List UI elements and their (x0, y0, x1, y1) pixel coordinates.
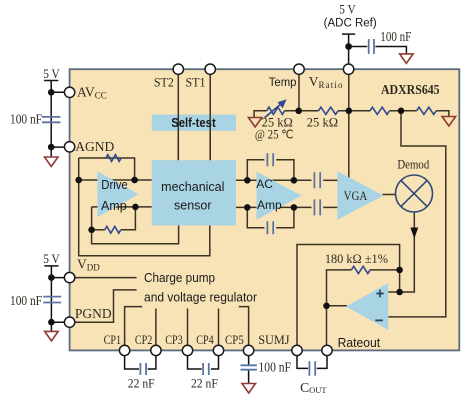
resistor R4 (417, 107, 436, 114)
resistor drive bottom (105, 226, 121, 233)
wire CP3 stub (187, 309, 189, 346)
wire CP1 bracket (125, 307, 143, 346)
resistor R3 (370, 107, 389, 114)
junction AC in top (244, 177, 251, 184)
svg-text:@ 25 ℃: @ 25 ℃ (255, 128, 294, 142)
capacitor AC top feedback (267, 153, 273, 166)
wire mixer output down (400, 212, 415, 292)
svg-text:ADXRS645: ADXRS645 (381, 83, 440, 98)
capacitor VGA in bottom (314, 199, 320, 215)
svg-text:and voltage regulator: and voltage regulator (144, 290, 257, 304)
supply bar 5V VDD (44, 265, 58, 267)
svg-text:Amp: Amp (257, 198, 282, 212)
wire drive loop top (79, 158, 135, 180)
svg-text:VGA: VGA (344, 189, 368, 203)
junction AC out bottom (291, 204, 298, 211)
wire drive left vertical (79, 158, 210, 256)
svg-text:5 V: 5 V (43, 251, 60, 266)
wire VDD charge pump (75, 277, 137, 279)
svg-text:CP2: CP2 (135, 333, 153, 347)
wire Temp vertical (298, 74, 300, 110)
pin ST2 (173, 64, 183, 74)
svg-text:22 nF: 22 nF (128, 376, 155, 391)
capacitor VGA in top (314, 172, 320, 188)
wire ST1 through self-test (209, 115, 211, 161)
wire drive loop bottom (92, 207, 179, 244)
junction pot-temp node (295, 108, 302, 115)
svg-text:PGND: PGND (75, 306, 112, 321)
pin AGND (64, 142, 74, 152)
wire CP5 to 100nF (248, 356, 250, 384)
wire pot to node (285, 110, 319, 112)
junction 180k right (396, 267, 403, 274)
svg-text:Demod: Demod (397, 157, 430, 171)
junction op-amp output (323, 303, 330, 310)
supply bar 5V AVcc (44, 80, 58, 82)
svg-text:ST1: ST1 (186, 76, 206, 90)
demod mixer (396, 175, 433, 212)
capacitor 22nF CP1-CP2 (140, 363, 146, 375)
pin Rateout (322, 345, 332, 355)
wire R4 to right ground (436, 111, 449, 117)
wire plus input (388, 291, 399, 293)
capacitor Cout (309, 361, 315, 376)
ground VDD rail (45, 331, 59, 341)
junction VDD rail bottom (48, 319, 55, 326)
svg-text:5 V: 5 V (43, 66, 60, 81)
svg-text:Rateout: Rateout (338, 336, 381, 350)
wire CP3 to 22nF (188, 356, 202, 369)
svg-text:100 nF: 100 nF (10, 293, 42, 308)
mixer output arrowhead (410, 228, 418, 239)
wire node to R3 (338, 110, 370, 112)
wire CP1 to 22nF (125, 356, 139, 369)
ground AVcc rail (45, 157, 59, 167)
junction drive bottom left (88, 227, 95, 234)
svg-text:180 kΩ ±1%: 180 kΩ ±1% (325, 252, 388, 266)
svg-text:Self-test: Self-test (171, 116, 216, 130)
wire SUMJ up and over (297, 245, 400, 346)
chip body ADXRS645 (70, 69, 460, 350)
pin CP2 (151, 345, 161, 355)
capacitor 100nF AVcc (42, 117, 60, 122)
wire Rateout to Cout (317, 356, 327, 369)
resistor 180k (351, 266, 370, 273)
svg-text:sensor: sensor (174, 198, 212, 212)
pin PGND (64, 317, 74, 327)
wire VRatio vertical to VGA (348, 74, 350, 178)
wire drive bottom resistor branch (92, 229, 105, 231)
pin Temp (294, 64, 304, 74)
pin CP1 (119, 345, 129, 355)
svg-text:100 nF: 100 nF (259, 359, 292, 374)
svg-text:COUT: COUT (300, 380, 327, 395)
pin SUMJ (292, 345, 302, 355)
supply bar 5V ADC Ref (342, 33, 355, 35)
capacitor 22nF CP3-CP4 (203, 363, 209, 375)
svg-text:Temp: Temp (269, 75, 297, 89)
wire sensor to AC row2 (236, 206, 312, 208)
junction AVcc rail top (48, 89, 55, 96)
ground CP5 cap (242, 384, 256, 394)
pin ST1 (205, 64, 215, 74)
junction VDD rail top (48, 274, 55, 281)
svg-text:25 kΩ: 25 kΩ (307, 115, 338, 130)
pin CP5 (243, 345, 253, 355)
ground pot (inside) (248, 118, 262, 128)
pin CP4 (213, 345, 223, 355)
wire 5V rail VDD (51, 266, 64, 332)
junction AC in bottom (244, 204, 251, 211)
capacitor 100nF CP5 (241, 365, 257, 369)
svg-text:CP1: CP1 (104, 333, 122, 347)
wire node to minus feedback (388, 111, 446, 317)
svg-text:Charge pump: Charge pump (144, 271, 215, 285)
wire CP4 stub (218, 309, 220, 346)
capacitor AC bottom feedback (267, 221, 273, 234)
svg-text:SUMJ: SUMJ (258, 333, 290, 347)
wire VGA out to mixer (383, 194, 396, 196)
wire AC bottom feedback loop (247, 207, 264, 227)
svg-text:CP4: CP4 (196, 333, 214, 347)
wire 180k left leg (327, 270, 352, 345)
wire ST2 through self-test (177, 115, 179, 161)
pin AVcc (64, 87, 74, 97)
capacitor 100nF ADC Ref (369, 39, 374, 54)
svg-text:mechanical: mechanical (161, 180, 224, 194)
wire drive row2 (92, 206, 152, 208)
svg-text:CP3: CP3 (165, 333, 183, 347)
wire ST1 vertical (209, 74, 211, 160)
drive amp triangle (97, 171, 138, 217)
junction AC out top (291, 177, 298, 184)
wire VGA cap row2 to VGA (323, 206, 337, 208)
AC amp triangle (257, 172, 302, 220)
wire 5V rail AVcc (51, 81, 64, 158)
capacitor 100nF VDD (43, 297, 61, 303)
mechanical sensor block (152, 160, 236, 225)
junction drive row1 right (131, 177, 138, 184)
wire SUMJ to Cout (297, 356, 308, 369)
svg-text:100 nF: 100 nF (380, 29, 411, 44)
potentiometer arrow (265, 99, 287, 118)
VGA triangle (337, 171, 383, 220)
junction AVcc rail bottom (48, 144, 55, 151)
wire AC top feedback loop (247, 160, 264, 181)
wire CP2 stub (155, 309, 157, 346)
pin VDD (64, 272, 74, 282)
junction ADC Ref node (345, 43, 352, 50)
junction vratio node (346, 108, 353, 115)
ground ADC Ref cap (400, 54, 414, 64)
op-amp U1 (346, 283, 388, 330)
wire drive row1 (79, 179, 152, 181)
svg-text:5 V: 5 V (339, 1, 356, 16)
junction plus input (396, 289, 403, 296)
wire op-amp output to Rateout node (327, 305, 348, 307)
label opamp minus (375, 319, 383, 321)
svg-text:Drive: Drive (101, 178, 128, 192)
svg-text:Amp: Amp (101, 199, 127, 213)
svg-text:100 nF: 100 nF (10, 112, 42, 127)
wire PGND bracket (75, 290, 137, 322)
wire VGA cap row1 to VGA (323, 179, 337, 181)
junction right node (398, 108, 405, 115)
wire CP5 bracket (239, 307, 249, 346)
svg-text:22 nF: 22 nF (191, 376, 218, 391)
resistor drive top (106, 155, 121, 162)
junction drive row2 right (132, 204, 139, 211)
wire ADC Ref node (349, 34, 407, 63)
label opamp plus (376, 290, 383, 297)
ground right end (inside) (442, 117, 456, 127)
svg-text:AC: AC (256, 177, 273, 191)
junction drive row1 left (75, 177, 82, 184)
svg-text:(ADC Ref): (ADC Ref) (324, 17, 377, 29)
potentiometer 25k zigzag (267, 107, 285, 114)
wire sensor to AC row1 (236, 179, 312, 181)
self-test block (152, 115, 236, 131)
wire CP2 to 22nF (148, 356, 156, 369)
wire 180k right (370, 269, 400, 271)
pin CP3 (182, 345, 192, 355)
wire ST2 vertical (177, 74, 179, 160)
wire resistor row left segment (254, 111, 267, 118)
wire R3 to node (390, 110, 417, 112)
resistor 25k (319, 107, 338, 114)
pin VRatio (343, 64, 353, 74)
svg-text:AGND: AGND (75, 139, 114, 154)
svg-text:CP5: CP5 (225, 333, 244, 347)
wire CP4 to 22nF (211, 356, 219, 369)
svg-text:ST2: ST2 (154, 76, 174, 90)
